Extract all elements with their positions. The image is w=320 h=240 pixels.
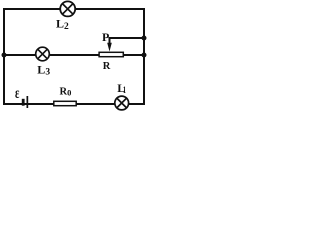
svg-text:L1: L1	[117, 81, 126, 95]
svg-text:ε: ε	[15, 84, 20, 102]
svg-text:R0: R0	[60, 86, 72, 97]
svg-text:R: R	[103, 61, 111, 72]
svg-text:P: P	[102, 30, 109, 44]
